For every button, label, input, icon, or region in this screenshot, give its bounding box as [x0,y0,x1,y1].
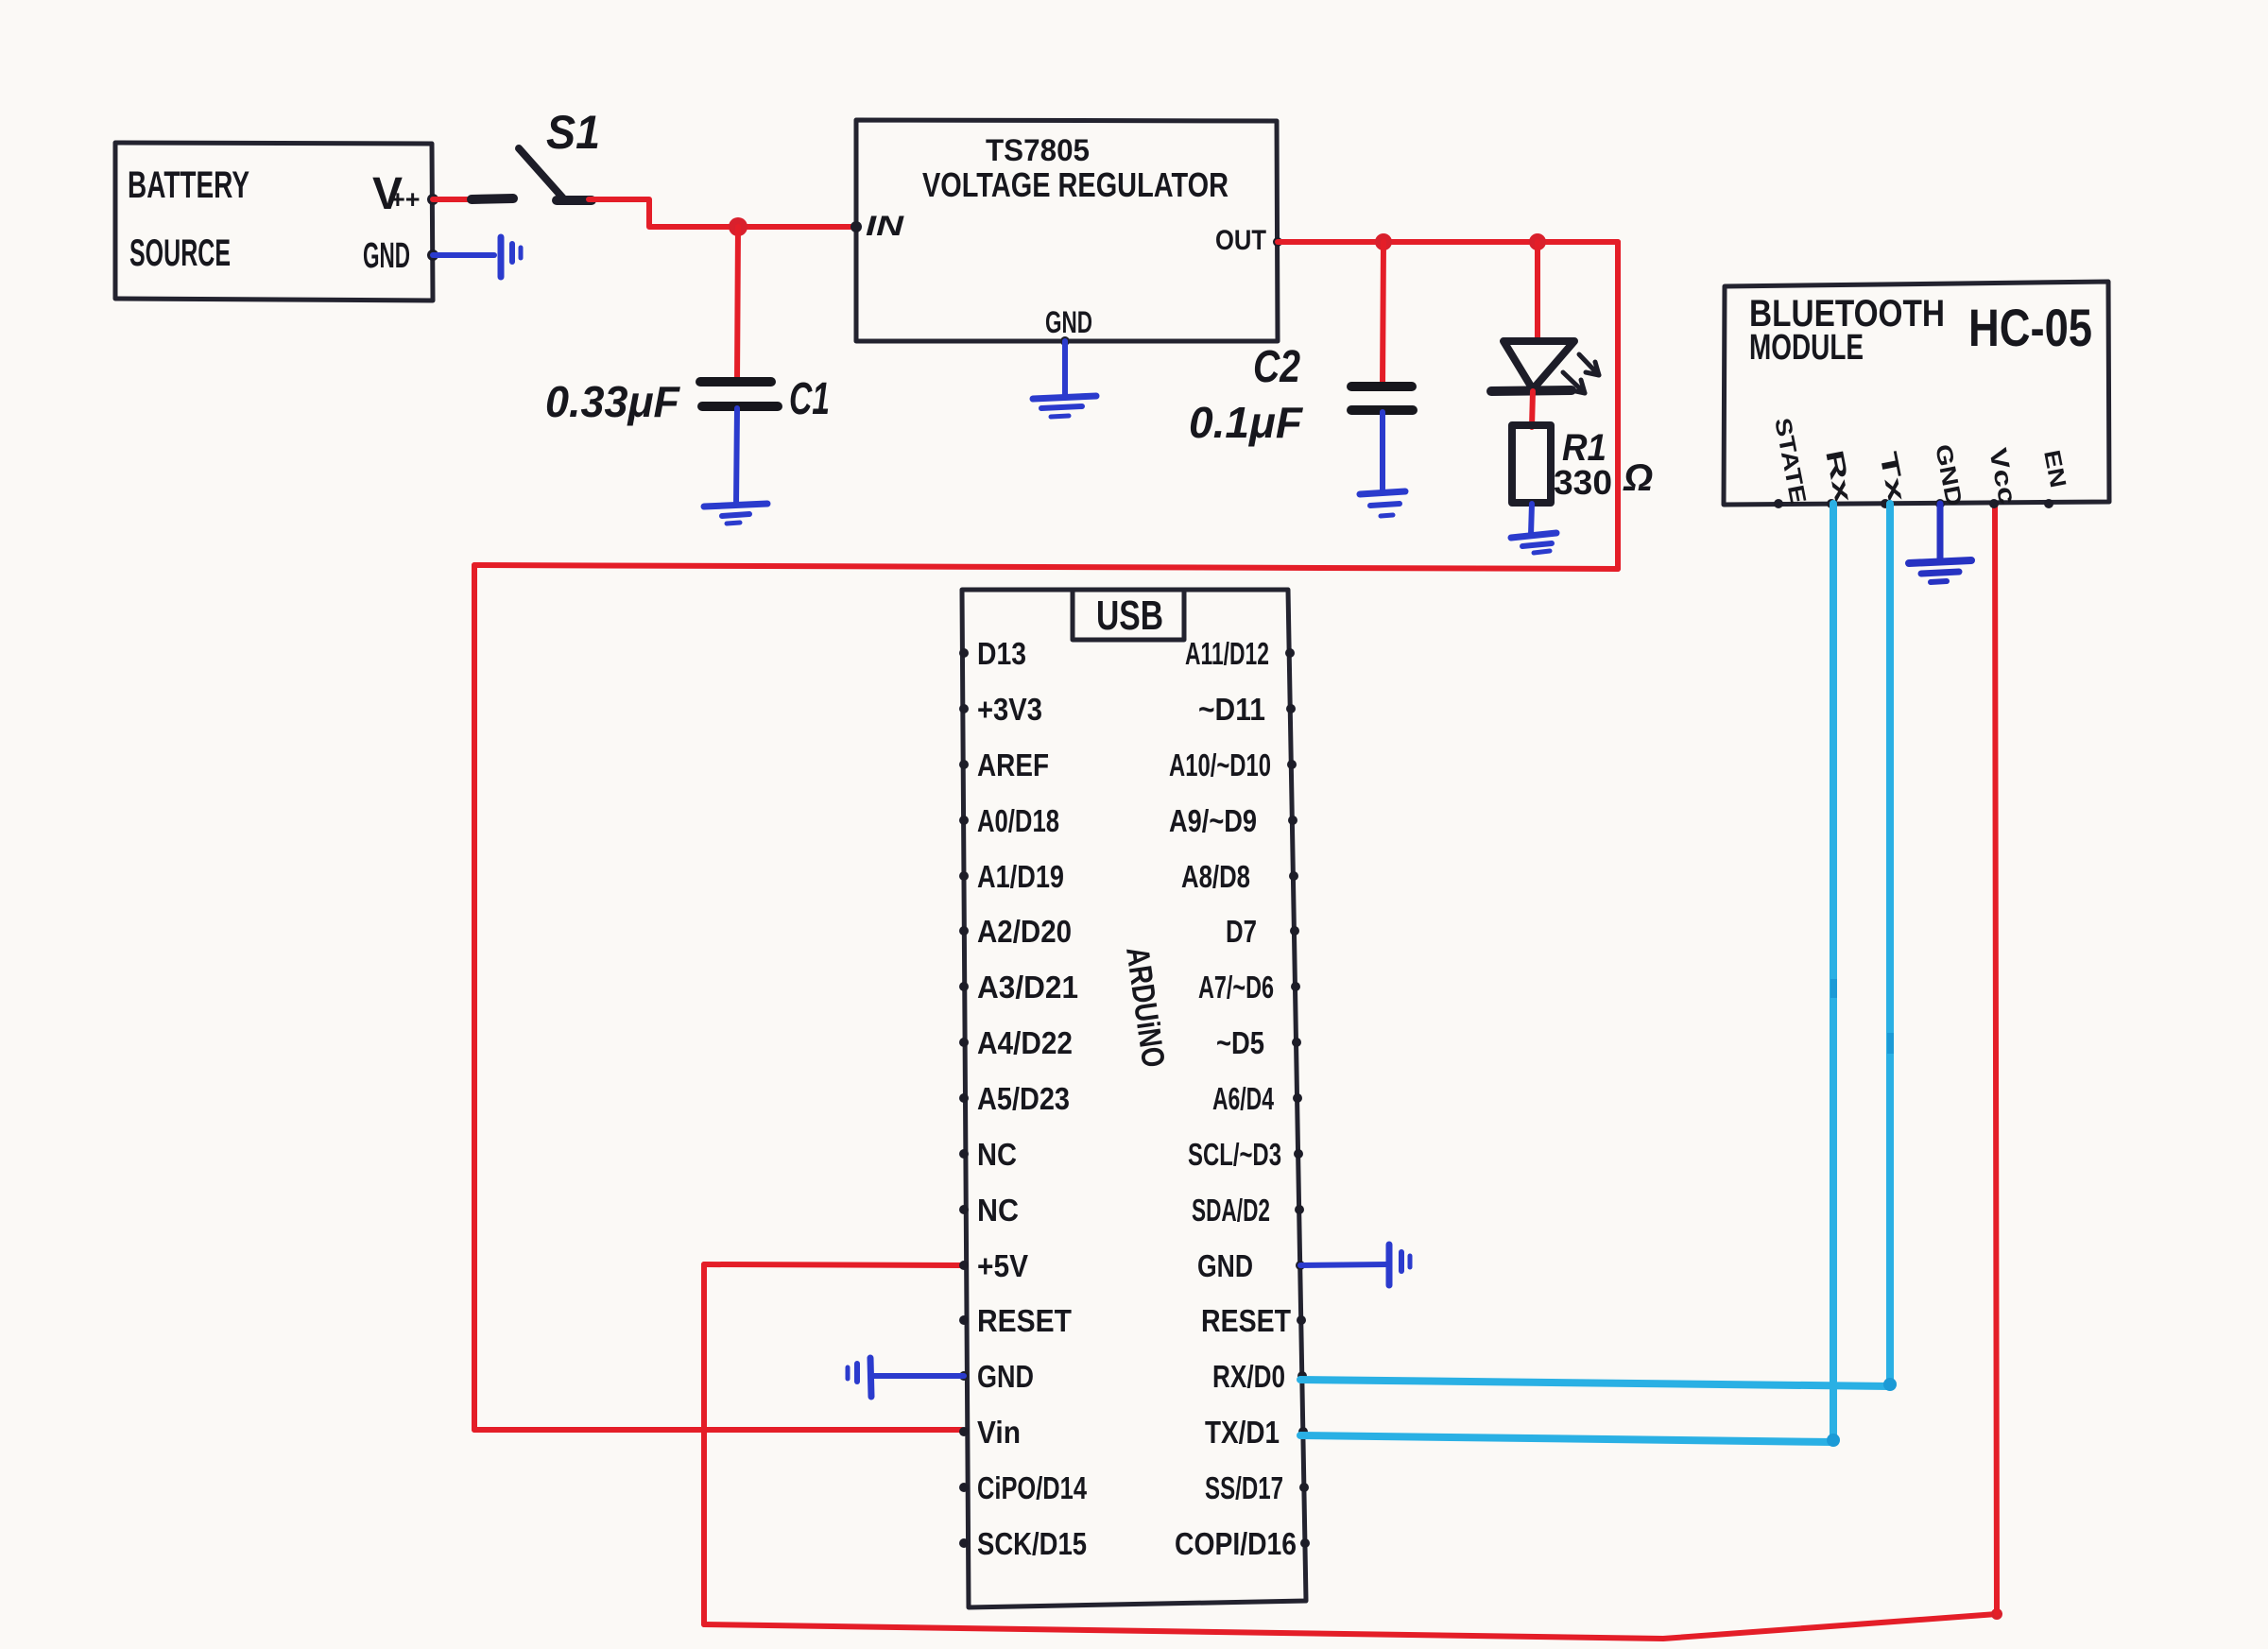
wire V+ to switch S1 (red) [433,197,475,202]
capacitor C2 plates [1351,386,1413,410]
svg-text:GND: GND [363,236,410,276]
wire rail to C2 (red) [1383,242,1383,386]
ground symbol at arduino left GND (rotated) [848,1358,871,1397]
pin dot left GND [959,1371,969,1381]
wire regulator GND to ground (blue) [1062,341,1068,396]
pin dot right A11/D12 [1285,648,1295,658]
wire S1 to IN (red, stepped) [589,199,856,227]
pin V+ label [372,169,421,219]
corner blob on RX wire [1883,1378,1897,1391]
wire bottom +5V bus (red) [704,1614,1997,1639]
corner blob on TX wire [1827,1434,1840,1447]
pin dot right A8/D8 [1289,871,1298,881]
pin dot right GND [1296,1261,1305,1270]
svg-text:A9/~D9: A9/~D9 [1169,803,1257,838]
svg-text:SOURCE: SOURCE [129,232,231,274]
svg-text:SCK/D15: SCK/D15 [977,1526,1087,1561]
wire +5V drop vertical (red) [701,1264,707,1624]
pin dot right A7/~D6 [1291,982,1300,991]
svg-text:Ω: Ω [1623,457,1653,499]
wire rail to Vin (red) [474,1427,962,1433]
svg-text:TS7805: TS7805 [986,133,1090,167]
pin dot right COPI/D16 [1300,1538,1310,1548]
pin GND dot (battery) [427,249,438,261]
pin dot left +3V3 [959,704,969,713]
svg-text:RESET: RESET [1201,1303,1291,1338]
ground symbol at battery (rotated) [501,237,521,277]
svg-text:OUT: OUT [1215,225,1266,256]
svg-text:MODULE: MODULE [1749,328,1864,368]
pin dot left A2/D20 [959,926,969,936]
svg-text:0.33μF: 0.33μF [545,377,681,426]
wire +5V rail right vertical (red) [1615,242,1621,569]
wire arduino RX/D0 to bluetooth Tx (cyan) [1300,504,1890,1386]
switch S1 [472,148,592,200]
pin dot left NC [959,1149,969,1159]
svg-text:NC: NC [977,1193,1019,1228]
svg-text:A1/D19: A1/D19 [977,859,1064,894]
svg-text:AREF: AREF [977,747,1049,782]
pin dot right A9/~D9 [1288,816,1297,825]
ink blob on Rx vertical [1830,979,1837,998]
svg-text:~D5: ~D5 [1216,1025,1264,1060]
wire +5V pin to left drop (red) [704,1264,964,1265]
ground symbol at R1 [1511,533,1556,553]
svg-text:A3/D21: A3/D21 [977,970,1078,1005]
pin dot left CiPO/D14 [959,1483,969,1492]
junction at bottom right corner [1991,1608,2002,1620]
svg-text:S1: S1 [546,106,600,159]
svg-text:A2/D20: A2/D20 [977,914,1072,949]
svg-text:+3V3: +3V3 [977,692,1042,727]
junction node at C1 tap [729,217,747,236]
ground symbol at bluetooth [1909,560,1971,582]
pin dot right ~D5 [1292,1038,1301,1047]
svg-text:+5V: +5V [977,1248,1028,1283]
svg-text:USB: USB [1096,593,1163,639]
wire R1 to ground (blue) [1531,504,1532,535]
wire +5V rail horizontal bus (red) [474,565,1618,569]
pin GND dot (bluetooth) [1935,499,1945,508]
svg-text:Vin: Vin [977,1415,1021,1450]
svg-text:NC: NC [977,1137,1017,1172]
svg-text:HC-05: HC-05 [1968,298,2092,357]
resistor R1 body [1512,425,1551,503]
wire bluetooth GND to ground (blue) [1937,504,1944,561]
wire arduino TX/D1 to bluetooth Rx (cyan) [1300,504,1833,1442]
svg-text:RESET: RESET [977,1303,1072,1338]
wire bus to bluetooth Vcc (red) [1995,504,1997,1614]
pin Tx dot [1881,499,1890,508]
wire C1 to ground (blue) [736,408,737,505]
svg-text:IN: IN [866,211,905,242]
svg-text:A6/D4: A6/D4 [1212,1081,1274,1116]
pin STATE dot [1774,499,1783,508]
wire C2 to ground (blue) [1380,412,1385,490]
junction node at LED tap [1529,233,1546,250]
pin IN dot [850,221,862,232]
pin Rx dot [1827,499,1836,508]
pin dot left +5V [959,1261,969,1270]
ground symbol at arduino right GND (rotated) [1389,1245,1410,1285]
wire +5V rail left vertical (red) [472,565,477,1430]
svg-text:GND: GND [1197,1248,1253,1283]
svg-text:330: 330 [1554,463,1612,502]
svg-text:CiPO/D14: CiPO/D14 [977,1470,1087,1505]
svg-text:~D11: ~D11 [1198,692,1265,727]
wire LED to R1 (red) [1532,391,1533,427]
svg-text:SCL/~D3: SCL/~D3 [1188,1137,1281,1172]
junction node at C2 tap [1375,233,1392,250]
pin GND dot (regulator) [1060,336,1070,346]
pin dot right ~D11 [1286,704,1296,713]
wire rail to LED (red) [1535,242,1540,342]
svg-text:++: ++ [390,185,421,214]
svg-text:A4/D22: A4/D22 [977,1025,1073,1060]
wire arduino left GND to ground (blue) [874,1373,964,1379]
svg-text:GND: GND [1045,305,1092,339]
svg-text:VOLTAGE REGULATOR: VOLTAGE REGULATOR [922,165,1228,204]
svg-text:C1: C1 [789,374,830,424]
LED D1 [1491,341,1574,391]
svg-text:SDA/D2: SDA/D2 [1192,1193,1270,1228]
ground symbol at C1 [704,504,767,524]
bluetooth module HC-05 box [1724,282,2109,505]
pin dot right D7 [1290,926,1299,936]
pin dot right SDA/D2 [1295,1205,1304,1214]
svg-text:A0/D18: A0/D18 [977,803,1059,838]
battery source box [115,143,433,301]
pin V+ dot [427,194,438,205]
svg-text:SS/D17: SS/D17 [1205,1470,1283,1505]
pin Vcc dot [1989,499,1999,508]
pin dot left D13 [959,648,969,658]
svg-text:D13: D13 [977,636,1026,671]
pin dot left AREF [959,760,969,769]
pin dot left A1/D19 [959,871,969,881]
pin dot right RESET [1297,1315,1306,1325]
wire OUT rail (red) [1278,239,1618,245]
USB connector box [1073,592,1184,640]
pin dot right TX/D1 [1298,1427,1308,1436]
svg-text:A8/D8: A8/D8 [1181,859,1250,894]
pin dot left A4/D22 [959,1038,969,1047]
svg-text:A7/~D6: A7/~D6 [1198,970,1274,1005]
pin dot left SCK/D15 [959,1538,969,1548]
pin dot left Vin [959,1427,969,1436]
ground symbol at C2 [1360,491,1405,516]
pin OUT dot [1273,237,1282,247]
svg-text:TX/D1: TX/D1 [1205,1415,1280,1450]
svg-text:A11/D12: A11/D12 [1185,636,1269,671]
pin dot left RESET [959,1315,969,1325]
pin dot right RX/D0 [1297,1371,1307,1381]
svg-text:RX/D0: RX/D0 [1212,1359,1285,1394]
pin dot left A3/D21 [959,982,969,991]
wire arduino right GND to ground (blue) [1300,1264,1387,1265]
pin dot right SS/D17 [1299,1483,1309,1492]
ink blob on Tx vertical [1887,1033,1894,1054]
pin dot right A6/D4 [1293,1093,1302,1103]
wire battery GND to ground (blue) [433,252,494,258]
svg-text:0.1μF: 0.1μF [1189,398,1304,447]
ground symbol at regulator [1033,396,1096,417]
svg-text:GND: GND [977,1359,1034,1394]
capacitor C1 plates [700,382,778,406]
svg-text:C2: C2 [1253,342,1300,392]
svg-text:D7: D7 [1226,914,1257,949]
pin EN dot [2044,499,2053,508]
pin dot left A0/D18 [959,816,969,825]
svg-text:BATTERY: BATTERY [128,164,249,206]
wire junction to C1 (red) [737,227,738,382]
LED light arrows [1563,354,1599,393]
pin dot left A5/D23 [959,1093,969,1103]
pin dot right A10/~D10 [1287,760,1297,769]
voltage regulator U1 TS7805 box [856,120,1278,341]
svg-text:COPI/D16: COPI/D16 [1175,1526,1297,1561]
pin dot right SCL/~D3 [1294,1149,1303,1159]
svg-text:A5/D23: A5/D23 [977,1081,1070,1116]
arduino module box [962,590,1306,1607]
svg-text:A10/~D10: A10/~D10 [1169,747,1271,782]
pin dot left NC [959,1205,969,1214]
